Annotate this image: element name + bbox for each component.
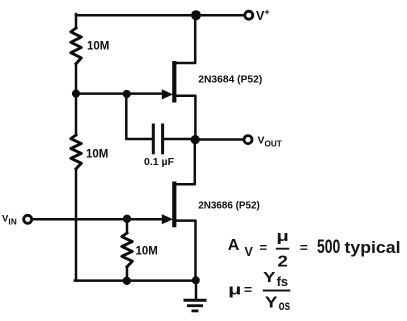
svg-text:=: =	[244, 282, 253, 297]
transistor Q2 2N3686 channel bar	[172, 182, 176, 228]
wire Q1 source to VOUT node	[176, 96, 195, 140]
resistor R2 10M	[71, 135, 82, 169]
transistor Q1 2N3684 channel bar	[172, 61, 176, 103]
resistor R3 10M	[122, 233, 133, 267]
svg-text:=: =	[260, 240, 268, 255]
wire VOUT line	[195, 138, 244, 141]
svg-text:V: V	[245, 245, 254, 259]
svg-text:10M: 10M	[136, 246, 158, 258]
svg-text:2: 2	[277, 253, 288, 270]
wire capacitor right branch	[164, 138, 195, 141]
svg-text:fs: fs	[277, 274, 289, 289]
junction dot VIN/R3	[123, 215, 131, 223]
svg-text:VOUT: VOUT	[258, 135, 282, 149]
svg-text:2N3686 (P52): 2N3686 (P52)	[198, 201, 259, 212]
wire ground drop	[195, 281, 198, 300]
svg-text:A: A	[228, 237, 240, 254]
svg-text:=: =	[300, 240, 308, 255]
svg-text:Y: Y	[265, 294, 278, 311]
terminal VIN	[24, 215, 32, 223]
wire Q2 source to ground rail	[176, 221, 196, 281]
transistor Q2 gate arrow	[162, 214, 173, 224]
terminal VOUT	[244, 136, 252, 144]
transistor Q1 gate arrow	[162, 89, 173, 99]
junction dot ground node	[192, 276, 200, 284]
svg-text:10M: 10M	[86, 148, 108, 160]
junction dot node A	[72, 90, 80, 98]
junction dot top rail	[191, 10, 201, 20]
capacitor C1 0.1uF left plate	[152, 125, 155, 153]
svg-text:0.1 µF: 0.1 µF	[144, 157, 174, 168]
svg-text:typical: typical	[345, 238, 401, 257]
capacitor C1 0.1uF right plate	[161, 125, 164, 153]
wire upper gate (node A to Q1 gate)	[76, 92, 163, 95]
ground	[184, 300, 207, 311]
wire bottom rail to ground	[75, 279, 196, 282]
gain formula Av = mu/2 = 500 typical	[228, 228, 401, 271]
wire node A vertical	[75, 64, 78, 135]
svg-text:10M: 10M	[87, 41, 109, 53]
svg-text:Y: Y	[263, 270, 276, 286]
svg-text:VIN: VIN	[2, 213, 17, 226]
svg-text:μ: μ	[228, 281, 241, 298]
resistor R1 10M	[71, 28, 82, 64]
wire VIN line	[32, 218, 164, 221]
svg-text:os: os	[279, 297, 291, 313]
wire VOUT node to Q2 drain	[176, 140, 195, 185]
wire top rail V+	[76, 14, 244, 17]
junction dot VOUT node	[191, 135, 200, 144]
svg-text:μ: μ	[276, 228, 288, 244]
wire Q1 drain to top rail	[176, 15, 195, 64]
junction dot R3/ground rail	[123, 277, 131, 285]
wire R3 top lead	[126, 219, 129, 233]
junction dot gate/cap branch	[123, 90, 131, 98]
wire left vertical lower	[75, 169, 78, 281]
mu formula mu = Yfs/Yos	[228, 270, 290, 313]
svg-text:2N3684 (P52): 2N3684 (P52)	[198, 75, 262, 86]
wire left vertical upper (V+ to node A)	[75, 14, 78, 28]
wire capacitor left branch	[126, 95, 152, 139]
wire R3 bottom lead	[126, 267, 129, 281]
svg-text:500: 500	[317, 236, 340, 258]
svg-text:V+: V+	[256, 7, 270, 23]
terminal V+	[245, 11, 253, 19]
